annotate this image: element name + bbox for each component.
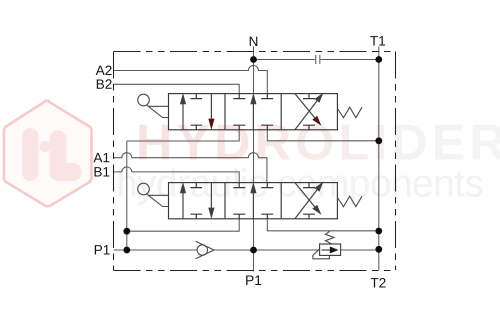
wire A1 [114,153,267,183]
valve V2 body [169,183,338,219]
junction node P1 right [375,246,382,253]
valve V1 body [169,94,338,130]
valve V2 spring [337,196,362,207]
wire P1 to T [341,249,379,251]
valve V2 box3 cross arrow down [295,183,315,207]
junction node T1 [375,56,382,63]
enclosure border bottom [114,270,396,272]
junction node N [250,56,257,63]
valve V1 box3 blocked port top [303,94,315,99]
valve V2 box2 center up arrow [252,193,254,218]
valve V1 box2 blocked port top right [261,94,273,99]
wire N to T1 with plug break [254,59,379,61]
valve V2 box2 blocked port bottom right [261,214,273,219]
wire B2 [114,84,240,93]
wire B1 [114,167,240,183]
relief valve RV1 spring [325,231,334,244]
watermark hexagon logo [4,101,92,207]
valve V2 lever [138,183,169,206]
relief valve RV1 arrow [322,249,331,251]
label N [250,37,258,46]
valve V1 box1 blocked port bottom [191,125,203,130]
valve V2 box1 down arrow [210,183,212,208]
relief valve RV1 pilot line [313,249,330,259]
valve V1 box1 up arrow [182,104,184,130]
wire N below valve2 to P1 [253,219,255,272]
valve V1 box2 blocked port top left [233,94,245,99]
valve V1 box2 blocked port bottom right [261,125,273,130]
wire P1 mid [214,249,320,251]
junction node P1 left [123,247,130,254]
label B1 [94,167,109,176]
valve V1 lever [138,94,169,117]
valve V2 box3 blocked port bottom [303,214,315,219]
label T2 [371,278,386,287]
valve V2 box1 blocked port top [191,183,203,188]
enclosure border right [395,52,397,271]
valve V1 box3 cross arrow down (maroon) [295,94,315,118]
wire valve1 port to T line [267,130,379,141]
label T1 [370,36,385,45]
junction node P1 center [250,247,257,254]
valve V2 box1 up arrow [182,193,184,219]
valve V1 box1 blocked port top [191,94,203,99]
label B2 [97,79,112,88]
junction node left rail upper [123,228,130,235]
junction node T lower [375,228,382,235]
wire A2 [114,66,268,94]
junction node T mid [375,137,382,144]
valve V1 box2 blocked port bottom left [233,125,245,130]
valve V2 box2 blocked port top right [261,183,273,188]
enclosure border left [113,52,115,271]
valve V2 box2 blocked port top left [233,183,245,188]
valve V2 box3 blocked port top [303,183,315,188]
wire N between valves [253,130,255,183]
valve V1 box2 center up arrow [252,104,254,129]
wire T1 stub [378,47,380,60]
svg-text:hydraulic components: hydraulic components [116,163,483,206]
wire valve2 port to left rail [127,219,239,231]
valve V1 box3 blocked port bottom [303,125,315,130]
wire N stub [253,47,255,60]
wire N above valve1 [253,60,255,94]
wire T line vertical [378,60,380,271]
label A2 [96,66,112,75]
valve V1 box3 cross arrow up [295,101,317,130]
valve V1 box1 down arrow (maroon) [210,94,212,119]
relief valve RV1 body [320,244,341,255]
valve V2 box3 cross arrow up [295,190,317,219]
wire valve1 port to left rail [127,130,239,141]
wire left rail vertical [126,141,128,250]
plug symbol bars [316,55,320,64]
check valve CV1 [196,241,214,259]
enclosure border top [114,51,396,53]
label P1 left [95,245,110,254]
label P1 bottom [246,276,261,285]
label A1 [93,153,109,162]
wire P1 inlet [114,249,198,251]
valve V2 box2 blocked port bottom left [233,214,245,219]
valve V1 spring [337,107,362,118]
wire valve2 port to T line [267,219,379,231]
valve V2 box1 blocked port bottom [191,214,203,219]
